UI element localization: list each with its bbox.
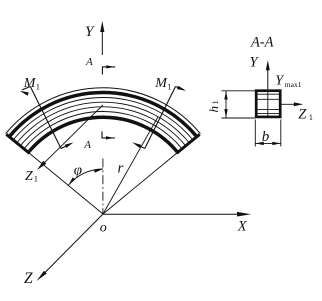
left moment couple M1: lever line [30, 87, 61, 149]
curved beam outer thick arc [9, 93, 197, 137]
Z1 axis of section A-A (oblique, parallel to Z) [43, 105, 103, 164]
right couple bottom hook with arrowhead [136, 144, 145, 148]
lamination arc 2 [17, 102, 190, 143]
curved laminated beam: outer thin edge arc [6, 88, 201, 134]
left couple top hook with arrowhead [22, 87, 30, 90]
svg-text:max1: max1 [285, 80, 302, 89]
lamination arc 1 [13, 98, 193, 140]
svg-text:1: 1 [309, 112, 313, 122]
right end cap of beam [177, 134, 200, 153]
b dimension line with arrows [255, 142, 280, 144]
svg-text:M: M [154, 76, 168, 91]
radius r line from o to beam centerline [103, 117, 158, 215]
Y axis arrow above section cut [101, 28, 103, 55]
upper section mark A with view arrow [102, 67, 115, 75]
Z axis from o down-left [43, 214, 103, 275]
svg-text:1: 1 [167, 81, 171, 91]
left end cap of beam [6, 134, 29, 153]
svg-text:A: A [83, 139, 91, 151]
svg-text:o: o [100, 221, 107, 236]
h1 dimension extension lines [222, 90, 256, 92]
svg-text:1: 1 [36, 82, 40, 92]
right couple top hook with arrowhead [176, 87, 184, 90]
lamination arc 3 [20, 107, 185, 146]
right radius line from origin o to right end cap [103, 152, 178, 214]
svg-text:1: 1 [34, 174, 38, 184]
svg-text:r: r [118, 161, 124, 177]
svg-text:X: X [237, 218, 248, 234]
left radius line from origin o to left end cap [28, 152, 103, 214]
angle phi arc with arrowheads [68, 169, 103, 185]
X axis from o [103, 213, 243, 215]
svg-text:A-A: A-A [250, 35, 274, 51]
svg-text:Z: Z [24, 270, 33, 287]
h1 dimension line with arrows [225, 91, 227, 118]
svg-text:Z: Z [25, 169, 33, 184]
svg-text:b: b [262, 129, 270, 145]
vertical dash-dot centerline through o [102, 159, 104, 215]
lower section mark A with view arrow [102, 131, 115, 138]
svg-text:1: 1 [210, 100, 220, 104]
section vertical centerline [267, 91, 269, 117]
svg-text:M: M [23, 76, 37, 91]
section Z1 axis line [282, 103, 296, 105]
b dimension extension lines [254, 120, 256, 147]
right moment couple M1: lever line [145, 87, 176, 149]
section lamination lines [256, 93, 280, 95]
svg-text:φ: φ [74, 163, 82, 179]
svg-text:h: h [206, 106, 221, 113]
svg-text:A: A [85, 56, 93, 68]
svg-text:Z: Z [298, 107, 307, 123]
curved beam inner thick arc [28, 117, 177, 152]
left couple bottom hook with arrowhead [61, 144, 70, 148]
lamination arc 4 [24, 111, 182, 148]
section Y axis [267, 68, 269, 89]
section rectangle (cross-section) [256, 91, 280, 117]
